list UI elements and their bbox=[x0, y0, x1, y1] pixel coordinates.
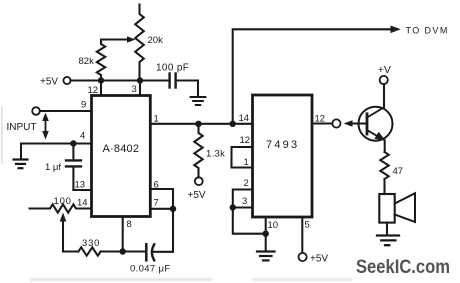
svg-text:82k: 82k bbox=[79, 56, 95, 67]
wire pin 12 out bbox=[312, 122, 332, 124]
wire pin 8 bbox=[122, 217, 124, 252]
wire pin 1 to 7493 pin 14 bbox=[150, 123, 252, 125]
(decorative faint band) bbox=[1, 106, 3, 164]
svg-text:1 μf: 1 μf bbox=[45, 162, 61, 173]
speaker LS1 bbox=[379, 194, 394, 223]
potentiometer 100 bbox=[30, 204, 92, 212]
junction node 7 bbox=[170, 206, 176, 212]
terminal +5V (1.3k) bbox=[195, 177, 203, 185]
junction node pin4 bbox=[70, 140, 76, 146]
svg-text:0.047 μF: 0.047 μF bbox=[130, 264, 171, 275]
svg-text:1.3k: 1.3k bbox=[206, 149, 225, 160]
wire pin7 node down bbox=[172, 209, 174, 252]
resistor 47 bbox=[380, 152, 388, 179]
svg-text:12: 12 bbox=[315, 114, 326, 125]
svg-text:INPUT: INPUT bbox=[7, 122, 37, 133]
resistor 82k bbox=[97, 40, 105, 81]
svg-text:12: 12 bbox=[240, 135, 251, 146]
svg-text:2: 2 bbox=[244, 178, 249, 189]
junction node pin3 bbox=[137, 77, 143, 83]
junction node pin3 7493 bbox=[230, 204, 236, 210]
wire 330 to node 8 bbox=[101, 250, 123, 252]
wire pin 7 bbox=[150, 208, 173, 210]
capacitor 0.047 uF bbox=[123, 250, 145, 252]
svg-text:3: 3 bbox=[242, 196, 247, 207]
wire wiper 20k bbox=[101, 38, 130, 40]
resistor 330 bbox=[78, 247, 100, 255]
ground (100 pF) bbox=[191, 97, 206, 105]
wire to speaker bbox=[383, 179, 385, 194]
svg-text:8: 8 bbox=[127, 219, 132, 230]
svg-text:13: 13 bbox=[75, 180, 86, 191]
svg-text:10: 10 bbox=[268, 220, 279, 231]
junction node pin10 bbox=[263, 231, 269, 237]
wire emitter bbox=[384, 140, 386, 152]
svg-text:+5V: +5V bbox=[40, 77, 58, 88]
IC U1 A 8402 bbox=[92, 96, 151, 217]
svg-text:330: 330 bbox=[82, 238, 100, 249]
ground (speaker) bbox=[377, 236, 399, 246]
wire pin 12 bbox=[100, 81, 102, 96]
wire reset to pin10 bbox=[233, 208, 266, 234]
svg-text:3: 3 bbox=[132, 84, 137, 95]
wiper arrow 100 bbox=[62, 219, 64, 252]
junction node DVM bbox=[230, 121, 236, 127]
svg-text:100 pF: 100 pF bbox=[156, 63, 189, 74]
terminal INPUT bbox=[32, 107, 40, 115]
wire to DVM bbox=[233, 29, 392, 124]
svg-text:SeekIC.com: SeekIC.com bbox=[356, 257, 450, 278]
wire pin 6 bbox=[150, 189, 173, 209]
potentiometer 20k bbox=[135, 5, 144, 81]
svg-text:14: 14 bbox=[239, 113, 250, 124]
junction node 1.3k bbox=[195, 121, 201, 127]
svg-text:20k: 20k bbox=[148, 35, 164, 46]
svg-text:A·8402: A·8402 bbox=[103, 143, 140, 155]
svg-text:12: 12 bbox=[88, 85, 99, 96]
wire +5V rail bbox=[71, 79, 140, 81]
terminal +5V left bbox=[63, 77, 70, 84]
ground (input) bbox=[14, 160, 28, 169]
IC U2 7493 bbox=[253, 95, 313, 217]
svg-text:1: 1 bbox=[244, 157, 249, 168]
wire loop pin 2 to pin 3 bbox=[233, 190, 253, 208]
svg-text:100: 100 bbox=[54, 196, 72, 207]
svg-text:7493: 7493 bbox=[266, 139, 299, 151]
wire pin 5 bbox=[301, 217, 303, 253]
svg-text:+V: +V bbox=[378, 64, 391, 76]
wire loop pin 12 to pin 1 bbox=[232, 147, 253, 168]
arrow into base bbox=[344, 120, 353, 127]
svg-text:47: 47 bbox=[393, 166, 404, 177]
transistor Q1 bbox=[359, 107, 393, 141]
capacitor 100 pF bbox=[140, 79, 168, 81]
svg-text:9: 9 bbox=[81, 100, 86, 111]
junction node 8 bbox=[120, 248, 126, 254]
svg-text:14: 14 bbox=[77, 198, 88, 209]
wire pin 13 bbox=[73, 189, 91, 191]
wire collector bbox=[383, 84, 385, 107]
svg-text:+5V: +5V bbox=[188, 190, 206, 201]
svg-text:+5V: +5V bbox=[310, 254, 328, 265]
resistor 1.3k bbox=[194, 124, 202, 177]
terminal +5V (7493) bbox=[299, 253, 307, 261]
svg-text:TO DVM: TO DVM bbox=[406, 26, 449, 36]
arrow input span bbox=[45, 117, 47, 134]
svg-text:7: 7 bbox=[154, 198, 159, 209]
wire pin 9 bbox=[40, 110, 92, 112]
wire pin 10 bbox=[265, 217, 267, 251]
wire wiper to 330 bbox=[63, 250, 78, 252]
capacitor 1 uF bbox=[72, 144, 74, 160]
ground (7493) bbox=[257, 252, 275, 261]
terminal pin12 circle bbox=[332, 119, 340, 127]
junction node pin12 bbox=[98, 77, 104, 83]
wire speaker to ground bbox=[386, 223, 388, 235]
wire pin 4 bbox=[21, 144, 92, 159]
svg-text:5: 5 bbox=[305, 220, 310, 231]
svg-text:1: 1 bbox=[154, 114, 159, 125]
svg-text:6: 6 bbox=[154, 180, 159, 191]
wire pin 3 bbox=[139, 81, 141, 96]
svg-text:4: 4 bbox=[80, 131, 85, 142]
terminal +V bbox=[380, 76, 388, 84]
